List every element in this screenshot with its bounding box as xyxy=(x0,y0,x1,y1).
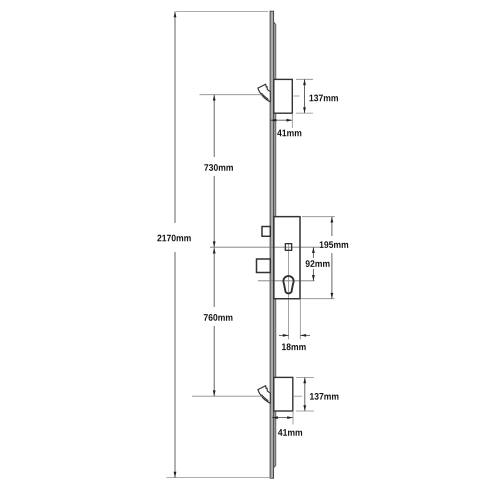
label 2170mm xyxy=(157,235,190,242)
label 760mm xyxy=(204,314,233,321)
label 41mm bottom xyxy=(278,429,302,436)
euro cylinder outline re-stroke xyxy=(283,276,293,293)
dim extension line top xyxy=(176,10,268,12)
bottom keep 137mm extension lines xyxy=(296,376,314,378)
bottom keep box xyxy=(274,377,293,411)
top keep box xyxy=(274,79,293,113)
cylinder centre line xyxy=(258,280,315,282)
label 730mm xyxy=(204,164,233,171)
spindle centre line xyxy=(210,246,320,248)
bottom hook centre line xyxy=(192,395,263,397)
euro cylinder keyhole xyxy=(283,276,293,293)
dimension 760mm line xyxy=(213,248,215,397)
18mm vertical guides xyxy=(288,244,290,340)
dimension 18mm arrows xyxy=(279,334,289,336)
gearbox bottom extension xyxy=(301,298,335,300)
dimension 730mm line xyxy=(213,95,215,248)
label 137mm top xyxy=(309,95,337,102)
faceplate strip xyxy=(270,11,276,478)
spindle square xyxy=(285,244,291,251)
spindle square outline re-stroke xyxy=(285,244,291,251)
top hook centre line xyxy=(200,94,263,96)
label 18mm xyxy=(282,343,306,350)
label 195mm xyxy=(320,241,348,248)
gearbox xyxy=(274,217,300,299)
latch xyxy=(262,227,270,237)
deadbolt outline re-stroke xyxy=(257,259,271,273)
gearbox outline re-stroke xyxy=(274,217,300,299)
bottom hook xyxy=(258,386,270,404)
dimension 41mm bottom line xyxy=(272,417,293,419)
gearbox top extension xyxy=(302,216,335,218)
dim extension line bottom xyxy=(167,477,274,479)
latch outline re-stroke xyxy=(262,227,270,237)
dimension 137mm bottom line xyxy=(304,377,306,411)
dimension 41mm top line xyxy=(271,119,293,121)
label 41mm top xyxy=(277,130,301,137)
label 137mm bottom xyxy=(310,393,338,400)
dimension 2170mm line xyxy=(174,11,176,477)
dimension 195mm line xyxy=(331,217,333,299)
label 92mm xyxy=(306,260,330,267)
dimension 137mm top line xyxy=(304,79,306,113)
top hook xyxy=(258,84,270,102)
top keep 137mm extension lines xyxy=(296,78,313,80)
dimension 92mm line xyxy=(312,247,314,281)
deadbolt xyxy=(257,259,271,273)
